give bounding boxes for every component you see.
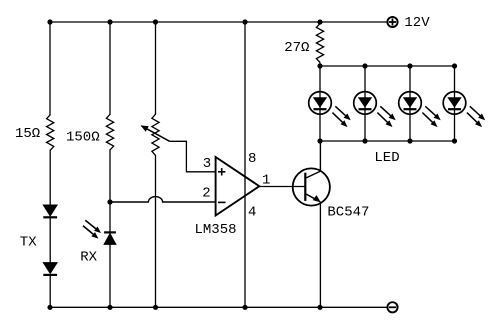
svg-text:15Ω: 15Ω <box>15 126 40 142</box>
transistor base bar <box>304 173 306 201</box>
potentiometer resistor body <box>152 114 159 155</box>
op-amp minus input marker <box>218 201 226 203</box>
svg-text:150Ω: 150Ω <box>66 129 100 145</box>
wire bottom ground rail <box>50 306 387 308</box>
resistor R 27ohm <box>316 24 323 63</box>
svg-text:LM358: LM358 <box>195 222 237 238</box>
wire LED top rail <box>320 65 455 67</box>
wire op-amp pin 2 with hop over pot column <box>110 197 216 202</box>
resistor R 150ohm <box>106 114 113 150</box>
svg-text:8: 8 <box>248 151 256 167</box>
wire left branch TX column <box>49 22 51 115</box>
wire pot branch column <box>155 22 157 114</box>
svg-text:TX: TX <box>20 234 37 250</box>
diode TX D2 <box>43 263 57 275</box>
node junctions top rail <box>47 19 322 24</box>
wire second branch RX column <box>109 22 111 114</box>
photodiode RX incoming arrow 2 <box>83 226 95 236</box>
transistor Q1 BC547 <box>293 168 330 205</box>
svg-text:RX: RX <box>80 249 97 265</box>
photodiode RX <box>104 232 116 244</box>
wire wiper to op-amp pin 3 <box>170 141 216 172</box>
svg-text:BC547: BC547 <box>327 205 369 221</box>
resistor R 15ohm <box>47 115 54 151</box>
photodiode RX incoming arrow 1 <box>85 220 97 230</box>
node junctions LED rails <box>317 63 457 143</box>
node junctions bottom rail <box>47 305 322 310</box>
svg-text:3: 3 <box>203 156 211 172</box>
terminal negative <box>387 302 397 312</box>
wire LED bottom rail <box>320 140 455 142</box>
op-amp U1 LM358 <box>216 157 260 216</box>
LED D5 <box>399 66 422 141</box>
terminal +12V <box>387 17 397 27</box>
LED D3 <box>309 66 332 141</box>
LED D6 <box>443 66 466 141</box>
svg-text:12V: 12V <box>404 15 430 31</box>
diode TX D1 <box>43 205 57 217</box>
transistor collector lead <box>305 141 320 178</box>
transistor emitter lead with arrow <box>305 194 315 200</box>
node junction RX / pin2 <box>107 199 112 204</box>
svg-text:2: 2 <box>202 186 210 202</box>
LED D4 <box>354 66 377 141</box>
potentiometer wiper arrow <box>142 126 170 141</box>
svg-text:27Ω: 27Ω <box>284 40 309 56</box>
wire top supply rail <box>50 21 387 23</box>
wire op-amp output to transistor base <box>259 186 305 188</box>
svg-text:LED: LED <box>374 150 399 166</box>
op-amp plus input marker <box>218 168 225 175</box>
svg-text:4: 4 <box>248 205 256 221</box>
wire op-amp power column pins 8-4 <box>244 22 246 307</box>
